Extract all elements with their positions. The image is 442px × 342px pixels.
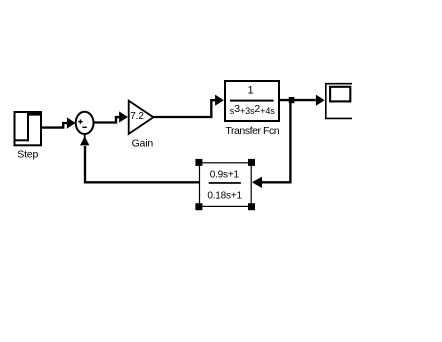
gain block (Gain) triangle bbox=[129, 101, 154, 134]
selection handle top-left bbox=[195, 159, 202, 166]
step source block (Step) bbox=[15, 111, 42, 145]
svg-text:0.9s+1: 0.9s+1 bbox=[210, 169, 240, 180]
wire Gain to Transfer Fcn bbox=[153, 95, 223, 117]
svg-text:Step: Step bbox=[17, 148, 38, 160]
wire junction node bbox=[289, 97, 295, 103]
transfer function block (Transfer Fcn) bbox=[225, 81, 279, 121]
selection handle top-right bbox=[248, 159, 255, 166]
selection handle bottom-right bbox=[248, 203, 255, 210]
wire Step to Sum bbox=[42, 117, 76, 128]
svg-text:1: 1 bbox=[248, 85, 254, 97]
wire feedback: junction down to Feedback block bbox=[252, 103, 291, 188]
svg-text:Gain: Gain bbox=[132, 137, 154, 149]
wire Sum to Gain bbox=[94, 111, 128, 122]
svg-text:7.2: 7.2 bbox=[130, 111, 144, 122]
feedback transfer function block (0.9s+1 / 0.18s+1) bbox=[200, 163, 252, 207]
wire Feedback block to Sum (bottom input) bbox=[80, 133, 200, 182]
svg-text:0.18s+1: 0.18s+1 bbox=[207, 190, 242, 201]
scope block (Scope) bbox=[326, 84, 352, 119]
sum junction (Sum) bbox=[76, 112, 94, 134]
svg-text:Transfer Fcn: Transfer Fcn bbox=[225, 125, 279, 137]
selection handle bottom-left bbox=[195, 203, 202, 210]
wire Transfer Fcn to Scope bbox=[280, 95, 325, 106]
